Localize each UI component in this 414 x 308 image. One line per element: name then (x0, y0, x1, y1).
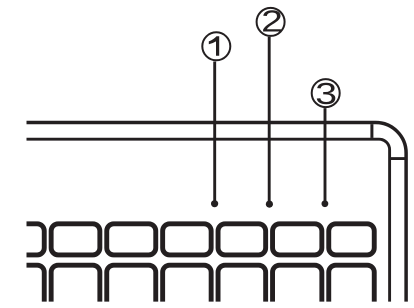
callout dot 1 (211, 200, 218, 207)
callout circle 3 (312, 79, 340, 107)
laptop inner deck edge with rounded right corner (20, 139, 390, 308)
svg-text:2: 2 (261, 4, 283, 39)
callout circle 1 (202, 32, 230, 60)
key row1 col2 (107, 224, 156, 255)
seam tick between top edges (370, 124, 373, 138)
key row2 col4 (218, 265, 266, 308)
callout circle 2 (257, 8, 285, 36)
key row2 col1 (51, 265, 100, 308)
key row2 cut fragment (12, 265, 44, 308)
callout dot 3 (322, 200, 329, 207)
callout leader line 3 (324, 108, 327, 204)
callout dot 2 (266, 201, 273, 208)
key row2 col6 (329, 265, 375, 308)
key row1 cut fragment (12, 224, 44, 255)
key row1 col5 (273, 224, 322, 255)
key row1 col6 (329, 224, 375, 255)
seam rung between right edges (390, 157, 407, 160)
laptop outer top edge with rounded right corner (20, 123, 406, 308)
callout number 1 (209, 36, 219, 56)
key row2 col5 (273, 265, 322, 308)
key row2 col2 (107, 265, 156, 308)
callout leader line 2 (268, 37, 271, 204)
callout leader line 1 (213, 62, 216, 204)
key row2 col3 (163, 265, 212, 308)
key row1 col3 (163, 224, 212, 255)
key row1 col4 (218, 224, 266, 255)
laptop body (clipped drawing region) (12, 123, 406, 308)
svg-text:3: 3 (315, 76, 337, 111)
key row1 col1 (51, 224, 100, 255)
